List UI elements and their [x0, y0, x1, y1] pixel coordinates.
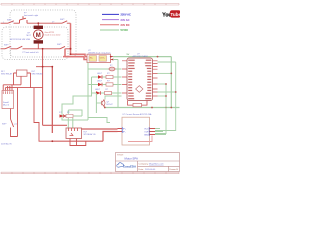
svg-text:SRD RELAY: SRD RELAY	[32, 73, 44, 76]
motor bottom stem	[37, 44, 39, 49]
legend 24V AC	[102, 19, 119, 21]
svg-text:Company:: Company:	[139, 164, 149, 166]
connector module pin hatch	[3, 91, 12, 94]
svg-text:TITLE:: TITLE:	[117, 155, 124, 157]
junction rail2 to bus	[70, 48, 72, 50]
svg-text:SRD RELAY: SRD RELAY	[1, 73, 13, 76]
wire rail2 to module	[65, 49, 87, 60]
svg-text:My 2.0: My 2.0	[3, 105, 10, 107]
dashed enclosure box B (motor assembly)	[2, 27, 68, 60]
green wires nano right to rails	[155, 62, 176, 134]
vertical switch SW3 blade	[11, 119, 14, 127]
relay SP G5	[66, 128, 96, 146]
legend 5V DC	[100, 29, 119, 31]
wire module bottom	[10, 109, 12, 120]
svg-text:MOT: MOT	[27, 35, 32, 37]
green bottom horizontal	[88, 118, 110, 123]
connector module wires	[3, 85, 42, 91]
svg-text:Drawn B: Drawn B	[170, 168, 179, 171]
wire rail1 top	[1, 22, 71, 24]
svg-text:5V DC: 5V DC	[121, 28, 129, 32]
vertical bus x52.3	[51, 67, 53, 133]
svg-text:BC547: BC547	[107, 104, 114, 106]
relay RL1	[17, 70, 28, 76]
fuse F1	[88, 65, 122, 71]
LED D1 + resistor R1 row	[92, 73, 122, 79]
svg-text:U? Current Sensor ACS712-20A: U? Current Sensor ACS712-20A	[123, 113, 152, 116]
svg-text:MOTOR DE UM 1/2A: MOTOR DE UM 1/2A	[10, 38, 30, 41]
svg-text:Date:: Date:	[139, 168, 145, 171]
transistor Q1	[96, 96, 122, 108]
bottom thick rail lower	[52, 132, 117, 142]
YouTube logo	[162, 10, 181, 18]
svg-text:Motor SPA: Motor SPA	[125, 157, 138, 161]
junction on rail1 at motor	[37, 22, 39, 24]
svg-text:220V AC IN: 220V AC IN	[1, 143, 12, 146]
svg-text:1: 1	[3, 22, 4, 24]
svg-text:MagicMonu.com: MagicMonu.com	[149, 164, 164, 166]
svg-text:M: M	[36, 33, 41, 39]
relay wires down	[14, 67, 37, 88]
svg-text:Sonoff: Sonoff	[3, 102, 9, 104]
green from diode row up to relay feed	[68, 110, 82, 116]
wire y66.7	[36, 66, 52, 68]
svg-text:LED?: LED?	[95, 89, 101, 91]
title block	[116, 153, 180, 172]
green vertical from module out-	[113, 60, 118, 108]
switch rail2 right blade	[60, 46, 65, 48]
thick bus down right of switch box	[71, 23, 88, 56]
svg-text:P? limit switch left: P? limit switch left	[23, 51, 39, 54]
LM2596 module	[87, 50, 114, 63]
svg-text:2: 2	[12, 22, 13, 24]
legend 220V AC	[102, 13, 119, 15]
green rail down right	[170, 57, 172, 108]
svg-text:limit switch right: limit switch right	[24, 14, 39, 17]
staircase from relay bus	[34, 88, 52, 142]
left pin stubs	[122, 61, 127, 93]
switch SW2 blade	[5, 46, 11, 48]
svg-text:made in iran 220v: made in iran 220v	[45, 34, 61, 36]
right pin stubs	[153, 61, 158, 96]
motor M top stem	[37, 23, 39, 26]
connector module box	[2, 91, 14, 109]
svg-text:GND: GND	[144, 134, 149, 136]
svg-text:IP-: IP-	[123, 131, 126, 133]
green power rail 5V top	[113, 56, 171, 58]
vertical bus x42.6	[42, 49, 44, 126]
limit switch left blade	[17, 46, 22, 49]
motor M	[34, 26, 44, 44]
wire rail2 bottom	[1, 48, 71, 50]
light wire under sensor	[128, 136, 152, 142]
LED D3 + resistor R3 row	[92, 89, 122, 95]
svg-text:2020-06-06: 2020-06-06	[145, 169, 156, 171]
limit switch right	[20, 16, 28, 23]
dashed enclosure box A (limit switch assembly)	[10, 10, 76, 57]
diode D3 row	[59, 112, 82, 118]
sheet top ruler	[1, 4, 179, 6]
resistor under nano	[128, 101, 148, 106]
svg-text:SP RELAY G5: SP RELAY G5	[84, 133, 96, 136]
sheet bottom ruler	[1, 172, 179, 174]
switch SW1 blade	[8, 21, 14, 23]
svg-text:24V DC: 24V DC	[121, 23, 130, 27]
svg-text:LED?: LED?	[97, 81, 103, 83]
svg-text:Tube: Tube	[170, 12, 180, 17]
diamond mark	[136, 86, 143, 93]
EasyEDA logo	[117, 163, 137, 169]
relay RL1 pins	[14, 72, 31, 74]
switch on rail1 right	[62, 21, 67, 23]
green vertical module left	[87, 63, 89, 121]
long green GND rail	[105, 107, 180, 109]
nano pin name rows	[128, 60, 151, 98]
dashed partition	[10, 50, 12, 59]
svg-text:VCC: VCC	[144, 128, 149, 130]
svg-text:ARDUINO NANO: ARDUINO NANO	[133, 55, 149, 58]
svg-text:24V AC: 24V AC	[121, 18, 130, 22]
current sensor U2	[118, 113, 167, 145]
arduino nano U1	[122, 53, 158, 106]
legend 24V DC	[100, 24, 119, 26]
LED D2 + resistor R2 row	[88, 81, 122, 87]
green coil feed wires to relay	[68, 110, 73, 129]
svg-text:EasyEDA: EasyEDA	[123, 165, 137, 169]
svg-text:OUT+: OUT+	[100, 57, 106, 59]
svg-text:LED?: LED?	[97, 73, 103, 75]
junction	[70, 53, 72, 55]
svg-text:220V AC: 220V AC	[121, 13, 132, 17]
green branch verticals	[62, 77, 92, 120]
bottom thick rail upper	[43, 124, 67, 126]
